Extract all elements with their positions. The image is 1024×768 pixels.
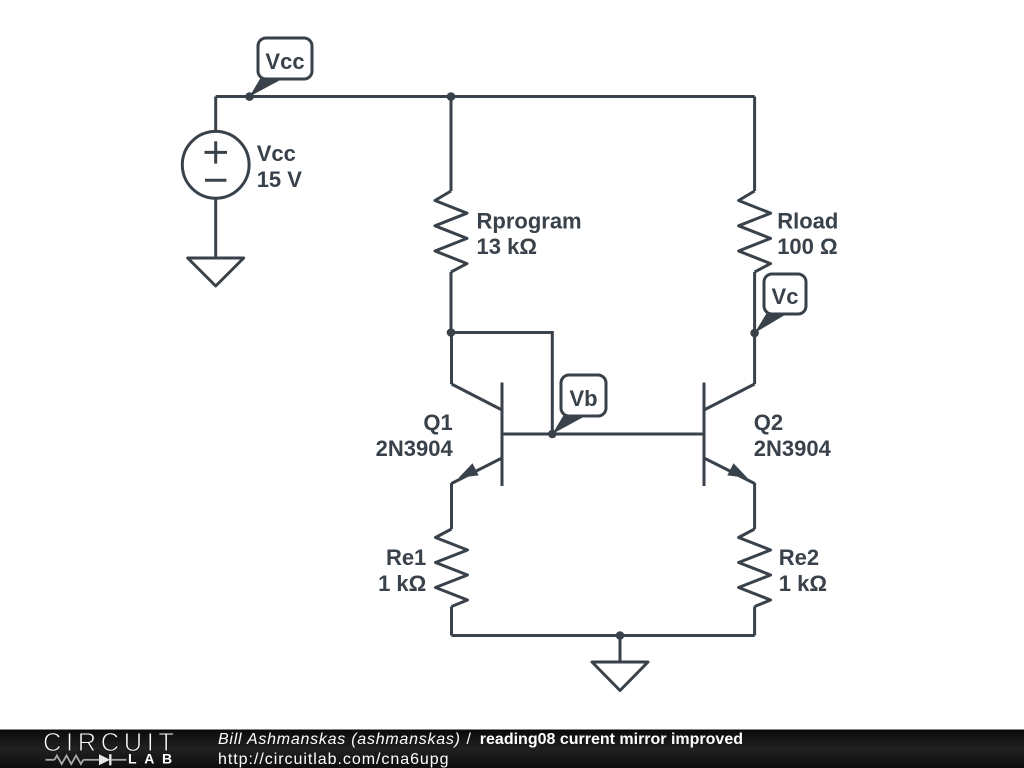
resistor Re2: [739, 529, 771, 636]
svg-text:13 kΩ: 13 kΩ: [477, 234, 537, 259]
node dot Vb: [548, 430, 557, 439]
resistor Rload: [739, 97, 771, 385]
footer title line: [218, 731, 743, 748]
wire ground stem: [619, 636, 622, 663]
wire bottom rail: [452, 634, 755, 637]
value label Q1 2N3904: [376, 410, 454, 461]
logo resistor-diode glyph: [46, 754, 127, 765]
svg-text:Vb: Vb: [569, 386, 597, 411]
footer bar: [0, 730, 1024, 768]
node dot Vc: [750, 329, 759, 338]
wire left drop to source: [214, 97, 217, 132]
value label Rload 100 Ω: [777, 209, 838, 260]
wire top rail Vcc: [216, 95, 755, 98]
value label Re1 1 kΩ: [378, 545, 426, 596]
svg-text:Re1: Re1: [386, 545, 426, 570]
svg-text:15 V: 15 V: [257, 167, 303, 192]
ground (left, under source): [188, 258, 244, 286]
svg-text:Rprogram: Rprogram: [477, 209, 582, 234]
value label Q2 2N3904: [754, 410, 832, 461]
logo CIRCUIT text: [43, 729, 179, 757]
node label Vcc (flag): [250, 38, 313, 97]
node label Vc (flag): [755, 274, 806, 333]
node dot Rprogram branch: [447, 92, 456, 101]
wire base rail Q1-Q2: [502, 433, 704, 436]
resistor Re1: [436, 529, 468, 636]
wire collector-to-base tie (Q1): [451, 333, 552, 435]
svg-text:Vc: Vc: [772, 284, 799, 309]
svg-text:Q1: Q1: [423, 410, 452, 435]
ground (bottom): [592, 662, 648, 691]
node label Vb (flag): [552, 375, 606, 434]
resistor Rprogram: [435, 97, 467, 333]
svg-text:2N3904: 2N3904: [754, 436, 832, 461]
svg-text:1 kΩ: 1 kΩ: [378, 571, 426, 596]
node dot Vcc tap: [245, 92, 254, 101]
footer url line: [218, 751, 450, 768]
svg-text:Vcc: Vcc: [257, 141, 296, 166]
value label Re2 1 kΩ: [779, 545, 827, 596]
value label Vcc 15 V: [257, 141, 303, 192]
value label Rprogram 13 kΩ: [477, 209, 582, 260]
node dot ground junction: [616, 631, 625, 640]
transistor Q1 2N3904 (mirrored NPN): [452, 333, 503, 530]
svg-text:Re2: Re2: [779, 545, 819, 570]
svg-text:2N3904: 2N3904: [376, 436, 454, 461]
svg-text:LAB: LAB: [128, 751, 180, 767]
svg-text:Rload: Rload: [777, 209, 838, 234]
svg-text:Q2: Q2: [754, 410, 783, 435]
logo LAB text: [128, 751, 180, 767]
transistor Q2 2N3904 (NPN): [704, 383, 755, 530]
svg-text:http://circuitlab.com/cna6upg: http://circuitlab.com/cna6upg: [218, 751, 450, 768]
svg-text:Bill Ashmanskas (ashmanskas)/r: Bill Ashmanskas (ashmanskas)/reading08 c…: [218, 731, 743, 748]
svg-text:Vcc: Vcc: [265, 49, 304, 74]
voltage source Vcc 15V: [182, 131, 249, 258]
svg-text:1 kΩ: 1 kΩ: [779, 571, 827, 596]
node dot Q1 collector junction: [447, 328, 456, 337]
svg-text:100 Ω: 100 Ω: [777, 234, 837, 259]
